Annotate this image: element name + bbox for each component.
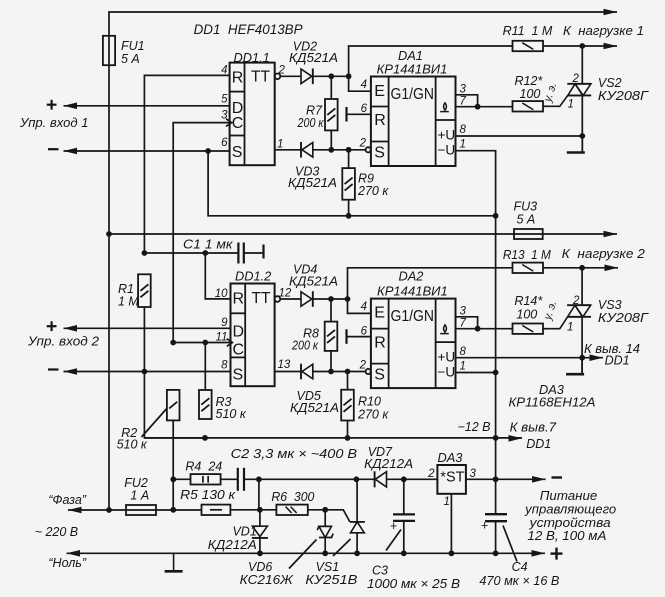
svg-text:12 В, 100 мА: 12 В, 100 мА (527, 529, 606, 543)
junction phase/FU3 wire (106, 231, 112, 237)
plus sign output (551, 548, 563, 560)
svg-text:1: 1 (460, 361, 466, 373)
svg-text:DD1: DD1 (526, 437, 551, 451)
svg-text:VS3: VS3 (598, 298, 622, 312)
wire node up to R11 (349, 46, 513, 76)
resistor R8 200k (325, 322, 338, 351)
svg-text:R: R (233, 291, 245, 308)
wire FU3 to load 2 (543, 233, 617, 235)
svg-text:КД521А: КД521А (289, 275, 338, 289)
wire R4 branch (173, 478, 190, 480)
junction clock line/phase (170, 507, 176, 513)
wire R14 to gate (543, 328, 549, 330)
resistor R10 270k (341, 390, 354, 421)
svg-text:C: C (232, 115, 244, 132)
output symbol diamond DA1 (440, 103, 449, 112)
junction R3/-12V rail (202, 435, 208, 441)
svg-text:КР1168ЕН12А: КР1168ЕН12А (509, 395, 596, 410)
svg-text:+U: +U (438, 128, 456, 143)
svg-text:КД212А: КД212А (208, 538, 257, 552)
junction FU1/phase (106, 507, 112, 513)
svg-text:G1/GN: G1/GN (391, 308, 435, 325)
svg-text:R4 24: R4 24 (185, 460, 222, 474)
svg-text:у. э.: у. э. (542, 299, 560, 322)
wire node down to E pin DA2 (348, 299, 371, 313)
svg-text:FU3: FU3 (514, 200, 538, 214)
wire VD3 anode to S input DA1 (314, 149, 366, 151)
junction VD5/R10 (345, 369, 351, 375)
junction R9/-12V wire (346, 213, 352, 219)
zener VD6 KS216Zh (317, 510, 333, 554)
svg-text:200 к: 200 к (291, 339, 319, 353)
diode VD5 KD521A (301, 364, 313, 380)
wire R4 to C2 (221, 478, 238, 480)
inversion bubble S input DA2 (366, 369, 371, 374)
wire S1 node to -12V rail (208, 151, 496, 216)
wire D input DD1.1 pin 5 (Upr vhod 1 +) (64, 105, 230, 107)
junction S1/-12V (205, 148, 211, 154)
arrow input 2 minus (64, 368, 78, 375)
arrow to load 1 (604, 43, 618, 50)
arrow phase (68, 507, 82, 514)
output symbol diamond DA2 (440, 325, 449, 334)
svg-text:4: 4 (361, 301, 367, 313)
resistor R13 1M (513, 263, 544, 273)
wire C2 node down to phase (258, 479, 260, 510)
svg-text:2: 2 (572, 73, 580, 85)
junction C4/null (493, 550, 499, 556)
svg-text:+: + (481, 519, 488, 533)
svg-text:−U: −U (438, 143, 456, 158)
wire R5 to R6 (230, 509, 276, 511)
svg-text:R13 1 М: R13 1 М (503, 248, 552, 262)
IC DD1.1 body (230, 63, 275, 166)
svg-text:100: 100 (520, 87, 541, 101)
wire pin 3 to pin 7 jog DA2 (456, 317, 478, 329)
ground VS3 (566, 358, 584, 375)
wire pin 13 output to VD5 (275, 371, 301, 373)
junction C1/pin10 (202, 250, 208, 256)
junction VD6/gate (322, 507, 328, 513)
svg-text:6: 6 (361, 103, 368, 115)
resistor R2 510k (167, 390, 180, 421)
wire C input DD1.2 pin 11 (173, 342, 230, 344)
svg-text:TT: TT (251, 69, 270, 86)
svg-text:4: 4 (361, 79, 367, 91)
svg-text:6: 6 (361, 326, 368, 338)
resistor R11 1M (513, 41, 544, 51)
wire DA3 pin 1 down (450, 494, 452, 554)
pointer line R2 (142, 408, 168, 437)
arrow input 1 plus (64, 103, 78, 110)
junction -12V vertical/rail (493, 435, 499, 441)
junction pin3/pin7 DA2 (475, 326, 481, 332)
svg-text:3: 3 (460, 306, 467, 318)
svg-text:R14*: R14* (514, 294, 543, 308)
thyristor VS1 KU251V (325, 479, 365, 553)
svg-text:3: 3 (460, 84, 467, 96)
svg-text:Упр. вход 2: Упр. вход 2 (27, 335, 99, 349)
pointer line C3 (386, 530, 401, 551)
junction pin3/pin7 DA1 (475, 104, 481, 110)
svg-text:1: 1 (444, 496, 450, 508)
svg-text:E: E (374, 305, 385, 322)
svg-text:К нагрузке 1: К нагрузке 1 (563, 24, 644, 38)
svg-text:200 к: 200 к (297, 116, 325, 130)
svg-text:R10: R10 (358, 395, 381, 409)
svg-text:3: 3 (221, 110, 228, 122)
wire R input DD1.1 pin 4 (144, 75, 229, 253)
wire R1 bottom to S2 wire (143, 307, 145, 372)
arrow null (67, 550, 81, 557)
junction R1 bottom/S2 (142, 369, 148, 375)
wire R8 bottom (330, 351, 332, 372)
svg-text:+: + (390, 519, 397, 533)
arrow to load 1 (top) (604, 9, 618, 16)
wire VD1 to null (259, 537, 261, 554)
wire R13 to load 2 (543, 267, 618, 269)
svg-text:2: 2 (572, 295, 580, 307)
junction -12V vertical top (493, 213, 499, 219)
wire FU2 to R5 (126, 509, 202, 511)
svg-text:−12 В: −12 В (457, 420, 490, 434)
wire VS3 anode (581, 268, 583, 306)
wire R10 bottom (347, 421, 349, 438)
junction VD4/R13/E (345, 296, 351, 302)
svg-text:~ 220 В: ~ 220 В (35, 525, 78, 539)
svg-text:3: 3 (470, 468, 477, 480)
resistor R6 300 (276, 505, 307, 515)
arrow to load 2 (605, 265, 619, 272)
svg-text:S: S (233, 367, 244, 384)
svg-text:КД521А: КД521А (289, 51, 338, 65)
arrow to DD1 pin 7 (509, 435, 523, 442)
chassis ground on null (165, 553, 183, 571)
arrow input 2 plus (64, 325, 78, 332)
minus sign input 1 (48, 148, 59, 150)
diode VD7 KD212A (375, 471, 387, 487)
resistor R14* 100 (513, 324, 544, 334)
svg-text:G1/GN: G1/GN (391, 86, 435, 103)
plus sign input 1 (47, 100, 57, 110)
svg-text:D: D (233, 324, 245, 341)
svg-text:КС216Ж: КС216Ж (240, 573, 295, 587)
wire VD5 anode to S input DA2 (314, 371, 366, 373)
svg-text:1: 1 (568, 99, 574, 111)
svg-text:“Фаза”: “Фаза” (48, 493, 86, 507)
svg-text:9: 9 (221, 317, 228, 329)
svg-text:КУ208Г: КУ208Г (598, 89, 649, 103)
junction VD4/R8 (328, 296, 334, 302)
fuse FU1 5A (103, 36, 115, 65)
junction DA3 out/-12V vertical (493, 476, 499, 482)
wire node up to R13 (348, 268, 513, 299)
svg-text:VD1: VD1 (232, 525, 256, 539)
wire pin 2 output to VD2 (280, 75, 301, 77)
svg-text:5: 5 (221, 94, 228, 106)
wire phase top rail (109, 12, 617, 510)
junction R10/-12V rail (345, 435, 351, 441)
junction C2/R5 out (256, 476, 262, 482)
arrow input 1 minus (64, 148, 78, 155)
wire S input DD1.1 pin 6 (Upr vhod 1 -) (64, 150, 230, 152)
minus sign output (552, 476, 563, 478)
junction VD3/R7 (328, 147, 334, 153)
svg-text:К выв.7: К выв.7 (510, 421, 558, 435)
svg-text:−U: −U (438, 365, 456, 380)
svg-text:2: 2 (359, 138, 367, 150)
svg-text:R12*: R12* (515, 74, 544, 88)
svg-text:R: R (232, 70, 244, 87)
wire R11 to load 1 (543, 45, 617, 47)
resistor R3 510k (199, 390, 212, 419)
svg-text:у. э.: у. э. (542, 81, 560, 104)
junction VD5/R8 (328, 369, 334, 375)
svg-text:DA3: DA3 (438, 450, 463, 465)
svg-text:7: 7 (460, 96, 467, 108)
junction VD3/R9 (346, 147, 352, 153)
svg-text:8: 8 (460, 124, 467, 136)
wire S2 node down to -12V rail (144, 372, 205, 438)
junction VD2/R7 (328, 73, 334, 79)
svg-text:13: 13 (278, 359, 291, 371)
junction C3/null (401, 550, 407, 556)
svg-text:8: 8 (460, 346, 467, 358)
junction R11/VS2 (579, 43, 585, 49)
arrow -12V output (532, 476, 546, 483)
svg-text:6: 6 (221, 137, 228, 149)
chassis stub R input DA1 (347, 107, 371, 122)
pointer line VS1 (333, 539, 351, 556)
ground VS2 (567, 136, 585, 153)
wire pin 8 +U DA1 to triac (456, 135, 583, 137)
plus sign input 2 (47, 321, 57, 331)
junction VD1 top (257, 507, 263, 513)
wire pin 1 -U DA1 down (456, 151, 496, 480)
svg-text:510 к: 510 к (216, 407, 247, 421)
wire -12V rail (144, 437, 522, 439)
svg-text:КД521А: КД521А (290, 401, 339, 415)
svg-text:1 А: 1 А (130, 489, 149, 503)
junction VS2/+U (579, 133, 585, 139)
wire R9 top (348, 150, 350, 168)
junction R1 top/C1 (142, 250, 148, 256)
pointer line VD6 (289, 540, 317, 569)
svg-text:КУ208Г: КУ208Г (598, 311, 649, 325)
svg-text:12: 12 (279, 288, 292, 300)
wire C1 node down to R pin 10 (205, 253, 230, 299)
svg-text:Питание: Питание (540, 489, 598, 503)
wire VD7 to DA3 (387, 478, 438, 480)
triac VS3 KU208G (549, 305, 591, 329)
svg-text:“Ноль”: “Ноль” (48, 556, 86, 570)
svg-text:270 к: 270 к (357, 184, 389, 198)
junction VS1 top (354, 476, 360, 482)
resistor R4 24 (191, 474, 221, 484)
junction DA3 pin1/null (449, 550, 455, 556)
svg-text:КД521А: КД521А (288, 176, 337, 190)
inversion bubble pin 2 DD1.1 (275, 74, 281, 80)
inversion bubble S input DA1 (366, 147, 371, 152)
wire R12 to gate (543, 105, 549, 107)
junction VD6/null (322, 550, 328, 556)
triac VS2 KU208G (549, 84, 591, 107)
wire pin 7 output DA1 to R12 (456, 106, 513, 108)
junction VD2/R11/E (346, 73, 352, 79)
svg-text:270 к: 270 к (357, 408, 389, 422)
wire phase to FU3 (109, 233, 543, 235)
diode VD3 KD521A (301, 142, 313, 158)
junction R4 branch top (170, 476, 176, 482)
wire D input DD1.2 pin 9 (Upr vhod 2 +) (64, 327, 231, 329)
svg-text:S: S (374, 367, 385, 384)
svg-text:R: R (374, 112, 386, 129)
svg-text:КР1441ВИ1: КР1441ВИ1 (377, 284, 448, 299)
diode VD2 KD521A (301, 69, 313, 85)
arrow to DD1 pin 14 (590, 354, 604, 361)
diode VD1 KD212A (252, 526, 268, 538)
fuse FU2 1A (126, 505, 156, 515)
svg-text:1000 мк × 25 В: 1000 мк × 25 В (367, 576, 460, 591)
svg-text:1 М: 1 М (118, 295, 139, 309)
IC DD1.2 body (231, 284, 275, 387)
wire clock vertical below R2 (172, 420, 174, 509)
resistor R1 1M (138, 274, 151, 307)
junction -U DA2/-12V line (493, 370, 499, 376)
wire node down to E pin DA1 (349, 76, 371, 91)
svg-text:7: 7 (460, 318, 467, 330)
wire phase input (68, 509, 126, 511)
wire R3 drop (204, 343, 206, 391)
wire VD2 cathode node (314, 75, 349, 77)
wire pin 1 -U DA2 (456, 372, 496, 374)
junction VS3/+U (579, 355, 585, 361)
wire R6 to VD6 node (308, 509, 325, 511)
wire pin 1 output to VD3 (275, 149, 301, 151)
svg-text:VD6: VD6 (248, 560, 272, 574)
wire R7 bottom (330, 130, 332, 149)
svg-text:1: 1 (567, 322, 573, 334)
svg-text:+U: +U (438, 350, 456, 365)
svg-text:С1 1 мк: С1 1 мк (183, 238, 234, 252)
dynamic input mark C DD1.1 (226, 119, 232, 127)
IC DA2 body (371, 299, 456, 389)
wire R8 top (330, 299, 332, 322)
svg-text:КУ251В: КУ251В (305, 573, 357, 587)
wire VS2 anode (581, 46, 583, 84)
wire C1 left (144, 252, 238, 254)
svg-text:С2 3,3 мк × ~400 В: С2 3,3 мк × ~400 В (231, 446, 358, 461)
svg-text:470 мк × 16 В: 470 мк × 16 В (479, 573, 559, 588)
wire S input DD1.2 pin 8 (Upr vhod 2 -) (64, 371, 231, 373)
svg-text:5 А: 5 А (121, 52, 140, 66)
junction VD1/null (257, 550, 263, 556)
svg-text:КР1441ВИ1: КР1441ВИ1 (377, 62, 448, 77)
wire pin 3 to pin 7 jog DA1 (456, 95, 478, 107)
wire R9 bottom to -12V wire (348, 200, 350, 216)
inversion bubble pin 12 DD1.2 (275, 296, 281, 302)
capacitor C2 3.3uF (238, 468, 244, 491)
svg-text:VS2: VS2 (598, 76, 622, 90)
dynamic input mark C DD1.2 (227, 339, 233, 347)
svg-text:2: 2 (278, 65, 286, 77)
svg-text:TT: TT (252, 290, 271, 307)
arrow to load 2 (top) (604, 231, 618, 238)
svg-text:5 А: 5 А (517, 213, 536, 227)
pointer line C4 (503, 526, 517, 562)
svg-text:управляющего: управляющего (524, 503, 616, 517)
wire pin 8 +U DA2 to triac (456, 357, 583, 359)
svg-text:КД212А: КД212А (364, 457, 413, 471)
svg-text:10: 10 (215, 288, 228, 300)
svg-text:510 к: 510 к (117, 438, 148, 452)
fuse FU3 5A (514, 229, 543, 239)
junction clock/C2 line (170, 340, 176, 346)
wire C input DD1.1 pin 3 (173, 123, 229, 343)
capacitor C4 470uF (485, 479, 507, 553)
svg-text:C: C (233, 342, 245, 359)
svg-text:Упр. вход 1: Упр. вход 1 (19, 116, 89, 130)
wire VS3 cathode (581, 317, 583, 374)
svg-text:DA2: DA2 (399, 269, 424, 284)
wire DA3 output (466, 478, 546, 480)
wire VD4 cathode node (314, 298, 348, 300)
IC DA3 body (437, 465, 466, 494)
junction R3 top (202, 340, 208, 346)
arrow plus output (532, 550, 546, 557)
junction R13/VS3 (579, 265, 585, 271)
diode VD4 KD521A (301, 291, 313, 307)
svg-text:2: 2 (427, 468, 435, 480)
resistor R7 200k (325, 99, 338, 130)
chassis stub R input DA2 (347, 329, 371, 344)
IC DA1 body (371, 77, 456, 167)
capacitor C3 1000uF (393, 479, 415, 553)
wire C2 to VD7 line (244, 478, 374, 480)
wire pin 12 output to VD4 (280, 298, 301, 300)
minus sign input 2 (48, 368, 59, 370)
svg-text:E: E (374, 83, 385, 100)
resistor R5 130k (202, 505, 231, 515)
wire VS2 cathode (581, 95, 583, 152)
svg-text:R5 130 к: R5 130 к (180, 488, 236, 502)
wire pin 7 output DA2 to R14 (456, 328, 513, 330)
svg-text:устройства: устройства (529, 516, 611, 530)
junction C3 top (401, 476, 407, 482)
svg-text:S: S (374, 145, 385, 162)
svg-text:DD1: DD1 (605, 354, 630, 368)
wire +U node to DD1 pin 14 (582, 357, 603, 359)
svg-text:VS1: VS1 (316, 560, 340, 574)
svg-text:R11 1 М: R11 1 М (503, 24, 553, 38)
svg-text:2: 2 (359, 360, 367, 372)
svg-text:S: S (232, 144, 243, 161)
wire null rail (67, 552, 546, 554)
wire R10 top (347, 372, 349, 390)
svg-text:1: 1 (460, 139, 466, 151)
resistor R12* 100 (513, 101, 544, 111)
svg-text:*ST: *ST (440, 470, 464, 486)
svg-text:R: R (374, 335, 386, 352)
svg-text:DD1 HEF4013BP: DD1 HEF4013BP (194, 21, 304, 37)
capacitor C1 1uF (238, 243, 263, 264)
resistor R9 270k (342, 168, 355, 200)
wire R7 top (330, 76, 332, 99)
junction VS1/null (354, 550, 360, 556)
wire VD1 vertical (259, 510, 261, 526)
svg-text:FU1: FU1 (121, 39, 145, 53)
svg-text:К нагрузке 2: К нагрузке 2 (562, 247, 645, 261)
